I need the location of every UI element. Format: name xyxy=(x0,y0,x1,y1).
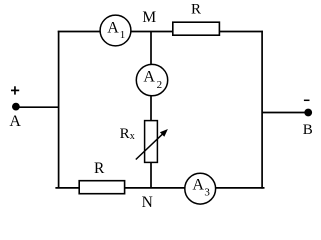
svg-text:A: A xyxy=(9,113,21,130)
terminal B dot xyxy=(304,109,312,117)
svg-text:M: M xyxy=(142,9,156,26)
wire terminal B lead xyxy=(262,112,308,114)
ammeter A2 xyxy=(136,64,167,95)
svg-text:A: A xyxy=(192,177,204,194)
wire top rail xyxy=(58,31,263,33)
wire right vertical xyxy=(261,31,263,189)
svg-text:R: R xyxy=(191,2,201,18)
wire middle branch from node M to node N xyxy=(150,32,152,188)
svg-text:B: B xyxy=(303,122,313,138)
terminal B minus sign xyxy=(304,99,310,101)
wire bottom rail xyxy=(55,187,264,189)
svg-text:x: x xyxy=(130,131,135,142)
svg-text:A: A xyxy=(143,68,155,85)
wire terminal A lead xyxy=(16,106,59,108)
resistor R bottom xyxy=(79,181,124,194)
svg-text:2: 2 xyxy=(157,79,163,91)
svg-text:1: 1 xyxy=(120,29,126,41)
svg-text:R: R xyxy=(94,160,105,177)
svg-text:N: N xyxy=(142,194,153,211)
terminal A dot xyxy=(12,103,20,111)
terminal A plus sign xyxy=(11,86,19,94)
ammeter A3 xyxy=(185,173,216,204)
svg-text:A: A xyxy=(107,19,119,36)
svg-text:3: 3 xyxy=(204,187,210,199)
resistor R top xyxy=(173,22,220,35)
ammeter A1 xyxy=(100,15,131,46)
svg-text:R: R xyxy=(120,126,130,142)
wire left vertical xyxy=(58,31,60,189)
rheostat Rx xyxy=(136,121,168,163)
